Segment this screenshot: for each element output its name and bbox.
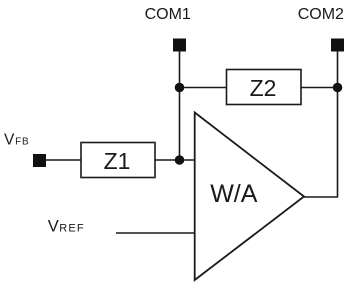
impedance Z1 (box) (81, 143, 155, 178)
impedance Z2 (box) (227, 70, 302, 105)
wire COM2 vertical (337, 51, 339, 197)
wire output (304, 196, 338, 198)
junction node at Z1 output (175, 155, 185, 165)
junction node at COM2 (333, 83, 343, 93)
wire Z2 left (180, 87, 227, 89)
wire VFB to Z1 (46, 159, 81, 161)
wire Z2 right (301, 87, 338, 89)
terminal COM2 (square) (331, 39, 344, 52)
op-amp W/A (triangle) (195, 113, 304, 281)
wire COM1 vertical (179, 51, 181, 160)
wire VREF (116, 232, 195, 234)
terminal COM1 (square) (173, 39, 186, 52)
wire Z1 to op-amp (155, 159, 195, 161)
svg-text:Z2: Z2 (250, 75, 277, 101)
terminal VFB (square) (33, 154, 46, 167)
svg-text:COM2: COM2 (298, 6, 344, 23)
svg-text:COM1: COM1 (145, 6, 191, 23)
svg-text:Z1: Z1 (104, 148, 131, 174)
junction node at Z2 tap (175, 83, 185, 93)
svg-text:W/A: W/A (210, 180, 258, 208)
